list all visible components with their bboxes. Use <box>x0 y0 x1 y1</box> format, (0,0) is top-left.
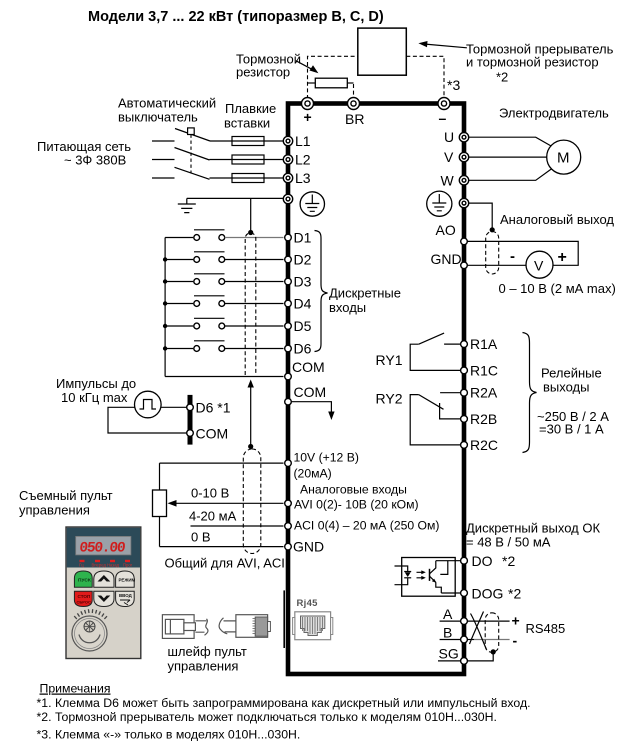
svg-text:управления: управления <box>19 503 90 518</box>
terminal W <box>441 172 469 188</box>
svg-text:ACI 0(4) – 20 мА (250 Ом): ACI 0(4) – 20 мА (250 Ом) <box>294 519 439 533</box>
wire ACI <box>191 525 284 527</box>
svg-text:0 – 10 В (2 мА max): 0 – 10 В (2 мА max) <box>499 281 616 296</box>
optocoupler LED input <box>395 566 412 585</box>
svg-text:Дискретные: Дискретные <box>329 286 401 301</box>
svg-text:AO: AO <box>436 222 456 238</box>
svg-text:A: A <box>443 606 453 622</box>
svg-text:Rj45: Rj45 <box>297 598 319 609</box>
svg-text:W: W <box>441 172 455 188</box>
discrete inputs left bus <box>165 238 283 377</box>
panel knob ticks <box>74 609 107 619</box>
svg-text:RY2: RY2 <box>376 391 403 407</box>
svg-text:Съемный пульт: Съемный пульт <box>19 488 113 503</box>
wire AO to voltmeter plus <box>467 241 578 265</box>
svg-text:-: - <box>510 248 515 265</box>
terminal GND right <box>431 251 468 269</box>
svg-text:U: U <box>444 129 454 145</box>
label: braking chopper annotation with arrow <box>418 41 613 85</box>
PE circle symbol inside box <box>300 192 324 216</box>
terminal L2 <box>283 152 310 168</box>
shield dashed capsule discrete inputs <box>245 233 256 375</box>
svg-text:+: + <box>512 613 520 629</box>
shield dashed capsule AO <box>486 232 499 275</box>
svg-text:Релейные: Релейные <box>541 366 602 381</box>
svg-text:*1. Клемма D6 может быть запро: *1. Клемма D6 может быть запрограммирова… <box>37 696 531 710</box>
svg-text:Автоматический: Автоматический <box>118 96 216 111</box>
contact switch D6 <box>165 341 283 352</box>
terminal GND analog <box>285 539 324 555</box>
svg-text:R2A: R2A <box>470 385 498 401</box>
junction dots on bus <box>163 257 167 350</box>
svg-text:RY1: RY1 <box>376 352 403 368</box>
svg-text:Плавкие: Плавкие <box>225 101 276 116</box>
svg-text:вставки: вставки <box>224 116 270 131</box>
svg-text:резистор: резистор <box>236 65 290 80</box>
wire 0V <box>160 546 284 548</box>
brace relay outputs <box>523 333 537 453</box>
terminal L3 <box>283 170 310 186</box>
svg-text:R1A: R1A <box>470 336 498 352</box>
wire: PE to earth <box>187 197 284 199</box>
label cable <box>168 644 247 674</box>
fuse FU1 <box>210 137 284 146</box>
terminal PE left <box>283 194 292 203</box>
circuit breaker QF pole 1 <box>152 129 210 142</box>
wire DO <box>436 560 461 562</box>
svg-text:выключатель: выключатель <box>118 110 198 125</box>
svg-text:Электродвигатель: Электродвигатель <box>499 106 609 121</box>
terminal PE right <box>459 198 468 207</box>
panel link line <box>283 590 285 648</box>
svg-text:L2: L2 <box>295 152 311 168</box>
fuse FU2 <box>210 155 284 164</box>
svg-text:V: V <box>534 258 544 274</box>
PE circle symbol right <box>427 191 452 216</box>
label discrete inputs <box>329 286 401 316</box>
svg-text:РЕЖИМ: РЕЖИМ <box>119 578 136 583</box>
svg-text:GND: GND <box>293 539 324 555</box>
relay RY1 contact <box>376 333 462 370</box>
terminal D5 <box>285 318 312 334</box>
terminal ACI <box>285 519 440 533</box>
wire 10V <box>160 462 284 464</box>
svg-text:L1: L1 <box>295 133 311 149</box>
cable flat wire <box>195 618 236 636</box>
panel button VVOD <box>116 591 135 606</box>
svg-text:COM: COM <box>292 359 325 375</box>
twisted pair crossing <box>470 612 487 650</box>
fuse FU3 <box>210 174 284 183</box>
svg-text:0-10 В: 0-10 В <box>191 486 229 501</box>
svg-text:(20мА): (20мА) <box>294 467 332 481</box>
svg-text:D5: D5 <box>294 318 312 334</box>
svg-text:шлейф пульт: шлейф пульт <box>168 644 247 659</box>
panel LCD display <box>76 536 131 556</box>
cable connector left <box>162 615 195 639</box>
braking resistor <box>308 78 354 99</box>
panel button PUSK <box>74 571 92 587</box>
circuit breaker linkage <box>188 128 195 174</box>
wire AVI with wiper arrow <box>168 500 284 507</box>
svg-text:+: + <box>558 249 567 266</box>
svg-text:V: V <box>444 149 454 165</box>
terminal A with stub <box>440 606 468 624</box>
svg-text:4-20 мА: 4-20 мА <box>189 509 237 524</box>
label: supply network <box>37 139 131 168</box>
panel button up <box>94 571 114 587</box>
label: fuses <box>224 101 276 131</box>
svg-text:~ 3Ф 380В: ~ 3Ф 380В <box>64 153 126 168</box>
earth ground symbol <box>178 198 196 212</box>
svg-text:M: M <box>557 150 570 167</box>
optocoupler phototransistor <box>430 561 448 593</box>
svg-text:10 кГц max: 10 кГц max <box>61 390 128 405</box>
svg-text:*2. Тормозной прерыватель може: *2. Тормозной прерыватель может подключа… <box>37 710 497 724</box>
inverter enclosure box <box>288 104 464 675</box>
shield dashed capsule analog <box>243 449 260 554</box>
svg-text:= 48 В / 50 мА: = 48 В / 50 мА <box>466 535 551 550</box>
panel LEDs <box>79 560 133 568</box>
terminal COM1 <box>285 359 325 380</box>
wire: dashed DC- rail to chopper <box>406 56 444 98</box>
relay RY2 contact <box>376 391 461 445</box>
wire GND to voltmeter minus <box>467 264 526 266</box>
label: circuit breaker <box>118 96 216 125</box>
svg-text:Примечания: Примечания <box>40 682 111 696</box>
svg-text:СТОП: СТОП <box>78 594 91 599</box>
contact switch D1 <box>165 230 283 241</box>
motor M <box>547 140 581 174</box>
svg-text:D2: D2 <box>294 252 312 268</box>
svg-text:*2: *2 <box>508 585 521 601</box>
optocoupler light arrows <box>417 570 426 579</box>
terminal SG with stub <box>438 646 467 665</box>
wire DOG <box>441 592 460 594</box>
svg-text:D6 *1: D6 *1 <box>196 399 231 415</box>
terminal D2 <box>285 252 312 268</box>
terminal R1A <box>461 336 498 352</box>
svg-text:ВВОД: ВВОД <box>119 593 133 598</box>
svg-text:SG: SG <box>439 646 459 662</box>
terminal COM pulse <box>187 426 228 442</box>
shield drain arrow down to analog <box>248 380 254 450</box>
panel knob <box>72 616 107 651</box>
label: braking resistor annotation with arrow <box>236 52 318 80</box>
svg-text:Общий для AVI, ACI: Общий для AVI, ACI <box>165 556 285 571</box>
svg-text:*3: *3 <box>447 77 460 93</box>
svg-text:СБРОС: СБРОС <box>77 600 91 605</box>
svg-text:B: B <box>443 625 452 641</box>
svg-text:D6: D6 <box>294 341 312 357</box>
contact switch D5 <box>165 318 283 329</box>
wire B to minus <box>467 639 509 641</box>
svg-text:DOG: DOG <box>472 585 504 601</box>
terminal U <box>444 129 469 145</box>
svg-text:DO: DO <box>472 553 493 569</box>
svg-text:RS485: RS485 <box>526 621 566 636</box>
wire PE right to shield dot <box>469 203 493 228</box>
contact switch D3 <box>165 274 283 285</box>
shield drain wire from PE wire <box>250 198 252 231</box>
panel button REZHIM <box>116 571 136 587</box>
terminal R1C <box>461 362 498 378</box>
svg-text:D4: D4 <box>294 296 312 312</box>
potentiometer <box>153 463 167 546</box>
svg-text:выходы: выходы <box>543 380 589 395</box>
svg-text:Вперед: Вперед <box>92 563 107 568</box>
svg-text:-: - <box>513 633 518 649</box>
svg-text:AVI 0(2)- 10В (20 кОм): AVI 0(2)- 10В (20 кОм) <box>294 498 419 512</box>
svg-text:Прог: Прог <box>123 563 133 568</box>
terminal B with stub <box>440 625 468 643</box>
svg-text:10V (+12 В): 10V (+12 В) <box>294 451 359 465</box>
svg-text:управления: управления <box>168 659 239 674</box>
pulse connector bar <box>188 395 193 445</box>
label removable control panel <box>19 488 113 518</box>
optocoupler U1 box <box>402 558 456 597</box>
wire V to motor <box>469 156 547 158</box>
terminal - <box>438 98 450 127</box>
svg-text:Гц: Гц <box>79 563 84 568</box>
terminal D4 <box>285 296 312 312</box>
contact switch D2 <box>165 252 283 263</box>
svg-text:Модели 3,7 ... 22 кВт (типораз: Модели 3,7 ... 22 кВт (типоразмер B, C, … <box>88 9 384 25</box>
panel button STOP <box>74 591 92 606</box>
svg-text:Назад: Назад <box>107 563 120 568</box>
terminal D6 pulse <box>187 399 231 415</box>
svg-text:Дискретный выход ОК: Дискретный выход ОК <box>466 521 600 536</box>
svg-text::: : <box>107 682 110 696</box>
terminal V <box>444 149 469 165</box>
svg-text:Аналоговый выход: Аналоговый выход <box>500 212 614 227</box>
svg-text:R1C: R1C <box>470 362 498 378</box>
terminal DOG <box>461 585 522 601</box>
wire: dashed DC+ rail to chopper <box>308 56 358 99</box>
svg-text:R2C: R2C <box>470 437 498 453</box>
svg-text:COM: COM <box>294 384 327 400</box>
wire W to motor <box>469 169 552 181</box>
terminal BR <box>345 98 364 128</box>
junction dot AO shield <box>490 227 495 232</box>
terminal R2A <box>461 385 498 401</box>
terminal 10V <box>285 451 359 481</box>
pulse input wiring <box>108 407 187 433</box>
svg-text:–: – <box>439 110 447 126</box>
voltmeter V <box>526 251 553 278</box>
braking chopper module box <box>358 28 407 75</box>
svg-text:=30 В / 1 А: =30 В / 1 А <box>539 422 604 437</box>
brace discrete inputs <box>315 231 328 352</box>
cable connector right <box>236 615 271 638</box>
terminal DO <box>461 553 516 569</box>
svg-text:и тормозной резистор: и тормозной резистор <box>466 55 599 70</box>
notes <box>37 682 531 742</box>
svg-text:D3: D3 <box>294 274 312 290</box>
terminal AVI <box>285 498 419 512</box>
wire A to plus <box>467 620 509 622</box>
svg-text:*3. Клемма «-» только в моделя: *3. Клемма «-» только в моделях 010Н...0… <box>37 728 301 742</box>
label discrete output OK <box>466 521 600 550</box>
label pulse input <box>56 376 136 405</box>
contact switch D4 <box>165 296 283 307</box>
terminal R2C <box>461 437 498 453</box>
RJ45 jack <box>293 612 333 640</box>
terminal + <box>302 98 314 126</box>
control panel body <box>66 527 141 659</box>
label relay outputs <box>537 366 609 437</box>
terminal R2B <box>461 411 498 427</box>
terminal COM2 with down arrow <box>285 384 335 420</box>
svg-text:BR: BR <box>345 111 364 127</box>
svg-text:0 В: 0 В <box>191 530 211 545</box>
svg-text:Аналоговые входы: Аналоговые входы <box>300 483 407 497</box>
circuit breaker QF pole 3 <box>152 167 210 179</box>
terminal L1 <box>283 133 310 149</box>
terminal AO <box>436 222 468 245</box>
terminal D1 <box>285 230 312 246</box>
svg-text:GND: GND <box>431 251 462 267</box>
svg-text:входы: входы <box>329 300 366 315</box>
wire U to motor <box>469 137 552 146</box>
svg-text:COM: COM <box>196 426 229 442</box>
svg-text:R2B: R2B <box>470 411 497 427</box>
svg-text:Импульсы до: Импульсы до <box>56 376 136 391</box>
junction dot shield top <box>248 230 253 235</box>
panel button down <box>94 591 114 606</box>
svg-text:D1: D1 <box>294 230 312 246</box>
svg-text:050.00: 050.00 <box>79 541 126 557</box>
shield dashed capsule RS485 <box>485 613 499 653</box>
terminal D6 <box>285 341 312 357</box>
wire SG to shield <box>467 649 496 661</box>
svg-text:ПУСК: ПУСК <box>78 578 91 584</box>
svg-text:L3: L3 <box>295 170 311 186</box>
svg-text:*2: *2 <box>502 553 515 569</box>
pulse source circle <box>135 391 162 418</box>
terminal D3 <box>285 274 312 290</box>
svg-text:*2: *2 <box>496 70 508 85</box>
circuit breaker QF pole 2 <box>152 148 210 161</box>
svg-text:+: + <box>304 109 312 125</box>
